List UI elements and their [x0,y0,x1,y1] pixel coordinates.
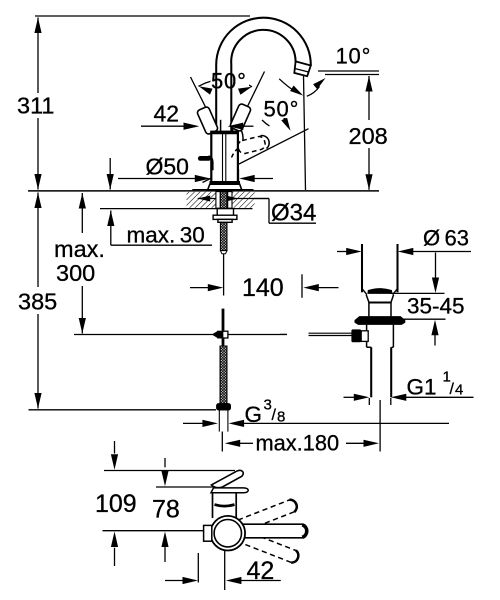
rod stub left [280,333,287,335]
dim max30 lower arrow line [110,211,112,246]
bv lever blade [211,488,248,493]
dimO63 arrow right [346,248,362,255]
dimO34 arrows overlay [198,196,211,202]
hose end stubs [218,410,220,432]
bv side nub [204,525,212,541]
dimG114 line left [344,396,356,398]
50deg2 arrow lower [281,117,290,130]
dim max300 line lower [81,286,83,334]
dimG38 arrow right [202,420,218,427]
base flange [207,184,242,190]
reference line hose end [29,409,217,411]
dimG38 line left [183,422,204,424]
dim180 line mid-left [238,442,253,444]
deck hatch right [232,192,255,208]
faucet body [211,132,238,183]
label 50deg1 [211,72,250,90]
handle knob left [196,106,218,135]
dim140 line right [317,287,339,289]
50deg1 arrow right [238,87,252,95]
dimG114 ext tick right [390,398,392,405]
rod coupling [212,331,228,339]
O34 box bottom [269,222,316,224]
dim3545 line upper [435,253,437,280]
lever rod [309,332,352,334]
ref line base bottom [103,530,210,532]
dimO50 line right [254,178,273,180]
svg-text:300: 300 [56,260,95,286]
dim42t line right [241,125,254,127]
dim140 ext line [301,274,303,298]
ref line lever top [156,486,213,488]
svg-text:G: G [245,402,263,427]
dim42b arrow left [226,577,242,584]
dim109 line lower [114,548,116,566]
svg-text:G1: G1 [407,375,437,400]
handle knob right [229,103,251,132]
10deg arc left arrow [290,86,303,96]
dimO63 arrow left [398,248,414,255]
dim 208 line upper [368,76,370,120]
body bottom heavy edge [210,181,241,184]
svg-text:max.: max. [54,236,105,262]
water stream line [304,76,306,191]
dim42b ext right [224,546,226,590]
dim140 arrow right [208,284,224,291]
svg-text:max. 30: max. 30 [127,223,205,248]
svg-text:109: 109 [95,490,137,518]
bv spout blade [211,470,243,487]
ref line bottom top [104,470,235,472]
svg-text:50°: 50° [264,97,300,122]
dim max300 line upper [81,193,83,233]
dim 385 line lower [37,314,39,409]
dim42t arrows overlay [184,123,200,130]
dim 385 line upper [37,193,39,288]
50deg1 ext line left [191,77,207,110]
10deg arc right branch [307,87,320,97]
handle neck [220,120,222,132]
dim42b line left [165,580,185,582]
mounting nut [213,209,237,223]
50deg2 arc fragment right [283,115,288,126]
dim42b ext left [197,553,199,583]
dimO63 line left [337,251,348,253]
drain lower body [367,324,394,347]
dim140 arrow left [303,284,319,291]
dimG38 arrow left [229,420,245,427]
dimG114 arrow left [391,394,407,401]
dimG38 line right [243,422,450,424]
drain pipe [361,244,363,292]
svg-text:78: 78 [152,496,180,524]
label 50deg2 [262,100,303,119]
rod clamp white [361,331,368,342]
dim42b line right [240,580,281,582]
deck top line [28,190,379,192]
drain upper body [369,302,391,316]
bv base circle outer [211,516,246,551]
svg-text:140: 140 [242,274,284,302]
dimO63 line right [411,251,471,253]
hose end nut [217,404,231,410]
svg-text:10°: 10° [336,44,372,69]
svg-text:208: 208 [349,123,388,149]
dim3545 line lower [434,334,436,346]
pull rod lower [222,339,225,347]
dimO50 line left [118,178,197,180]
svg-text:Ø50: Ø50 [146,154,189,180]
O34 box left [268,199,270,224]
base plate [192,189,253,191]
dim180 line mid-right [346,442,366,444]
svg-text:Ø 63: Ø 63 [423,226,469,251]
body inner lines [222,133,224,183]
aerator [294,61,311,76]
drain pipe chamfer [362,289,398,295]
10deg reference line lower [325,74,379,76]
dim 208 arrow up [365,76,372,92]
dim 311 arrow up [34,18,41,34]
dim 385 arrow up [34,193,41,209]
extension line from spout top [35,15,250,17]
dim42t arrow left [228,123,244,130]
dimO50 arrow left [239,175,255,182]
dim78 arrow up [161,532,168,548]
spout left arm inner [230,65,232,132]
50deg1 arc [199,79,253,86]
dimO34 arrow right [226,196,239,202]
dimO34 arrow left [198,196,211,202]
bv dashed lever down [239,530,300,564]
svg-text:8: 8 [277,409,285,426]
50deg1 ext line right [247,72,265,109]
body top heavy edge [211,131,238,134]
rod clamp dark [351,329,361,342]
closed lever [200,156,208,161]
bv base circle inner [214,520,241,547]
svg-text:42: 42 [247,557,275,585]
ref line plug top [390,292,445,294]
dimO34 line [198,198,269,200]
spout left arm outer [215,65,217,132]
dim78 arrow down [161,471,168,487]
svg-text:42: 42 [154,101,180,127]
10deg arc right arrow [313,78,325,89]
10deg arc left branch [279,79,296,93]
dim3545 arrow down [432,278,439,294]
dim109 arrow up [111,532,118,548]
dim 208 arrow down [365,174,372,190]
dim78 line upper [164,458,166,467]
dimG114 line right [405,396,474,398]
svg-text:/: / [272,407,277,424]
pull rod upper [223,254,225,296]
dim 311 arrow down [34,174,41,190]
max30 shelf line [111,244,212,246]
50deg1 arrow left [199,86,213,94]
bv solid lever [240,524,307,538]
dim 208 line lower [368,148,370,190]
dim max30 upper line [109,158,111,190]
deck underside line [100,208,253,210]
svg-text:Ø34: Ø34 [271,200,316,227]
dimO50 ext tick right [238,169,240,190]
dimO50 arrow right [195,175,211,182]
dim109 arrow down [111,454,118,470]
dim max30 arrow down [107,174,114,190]
lever axis line [203,129,309,183]
10deg reference line upper [318,70,379,72]
spout gooseneck arcs [216,18,311,66]
braided hose [220,346,227,404]
svg-text:311: 311 [17,93,54,119]
svg-text:35-45: 35-45 [407,294,465,319]
svg-text:max.180: max.180 [256,431,340,456]
dim42t arrow right [184,123,200,130]
dim 311 line upper [37,18,39,94]
stud tip [220,251,227,254]
reference line rod height [74,334,287,336]
drain tailpipe [370,347,372,397]
deck hole slots [216,192,232,209]
plug neck [366,295,393,303]
dim180 ext right [379,400,381,452]
svg-text:/: / [450,381,455,398]
dim max30 arrow up [107,211,114,227]
dim42t line left [141,125,185,127]
dim42b arrow right [183,577,199,584]
deck hatch left [187,192,216,208]
dimG114 arrow right [354,394,370,401]
dimG114 ext tick left [368,398,370,405]
dim 311 line lower [37,118,39,190]
open lever dashed [237,135,266,154]
seal flange [355,317,405,325]
threaded stud [220,192,227,251]
plug head [368,289,392,294]
50deg2 arc fragment left [262,120,270,126]
dim109 line upper [114,441,116,454]
dim max300 arrow down [79,318,86,334]
dim140 line left [190,287,210,289]
bv cartridge joint [215,505,235,507]
pull rod mid [222,309,225,331]
ref line seal flange [402,318,446,320]
bv body [213,493,237,518]
bv dashed lever up [238,498,299,532]
dim180 ext left [221,432,223,452]
dim180 arrow right [364,440,380,447]
dim78 line lower [164,546,166,562]
svg-text:385: 385 [18,289,57,315]
dim180 arrow left [225,440,241,447]
dim 385 arrow down [34,393,41,409]
dim3545 arrow up [431,320,438,336]
svg-text:4: 4 [455,382,463,399]
dim max300 arrow up [79,193,86,209]
